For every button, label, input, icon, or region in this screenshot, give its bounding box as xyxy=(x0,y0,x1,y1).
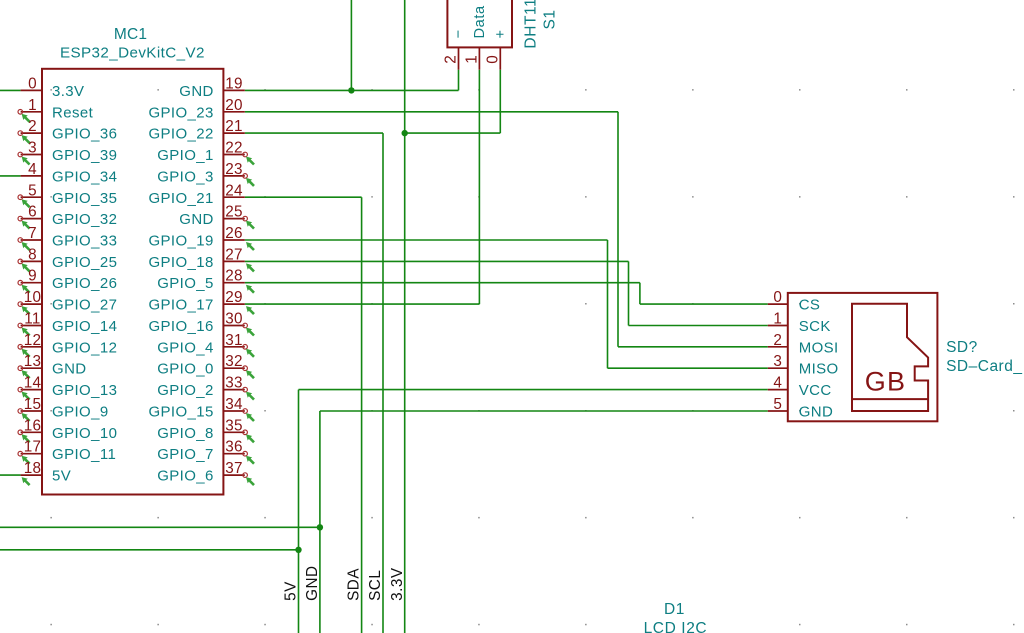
svg-text:GND: GND xyxy=(179,211,214,228)
svg-text:GND: GND xyxy=(304,565,321,601)
svg-text:3.3V: 3.3V xyxy=(389,567,406,601)
svg-text:17: 17 xyxy=(24,439,42,456)
svg-text:GPIO_7: GPIO_7 xyxy=(157,446,214,463)
svg-text:7: 7 xyxy=(28,225,37,242)
svg-text:2: 2 xyxy=(773,332,782,349)
svg-text:2: 2 xyxy=(443,55,460,64)
svg-text:GND: GND xyxy=(799,403,834,420)
svg-text:19: 19 xyxy=(225,75,243,92)
svg-text:Reset: Reset xyxy=(52,104,94,121)
svg-text:1: 1 xyxy=(28,97,37,114)
svg-text:22: 22 xyxy=(225,140,243,157)
svg-text:33: 33 xyxy=(225,375,243,392)
svg-text:GPIO_2: GPIO_2 xyxy=(157,382,214,399)
svg-text:GPIO_8: GPIO_8 xyxy=(157,425,214,442)
svg-text:29: 29 xyxy=(225,289,243,306)
svg-text:GPIO_18: GPIO_18 xyxy=(148,254,213,271)
svg-text:37: 37 xyxy=(225,460,243,477)
svg-text:GPIO_4: GPIO_4 xyxy=(157,339,214,356)
svg-text:3: 3 xyxy=(773,353,782,370)
svg-text:LCD I2C: LCD I2C xyxy=(644,620,708,633)
svg-text:31: 31 xyxy=(225,332,243,349)
svg-text:GPIO_13: GPIO_13 xyxy=(52,382,117,399)
svg-text:27: 27 xyxy=(225,246,243,263)
svg-text:D1: D1 xyxy=(664,601,685,618)
svg-text:SCK: SCK xyxy=(799,318,831,335)
svg-text:GPIO_16: GPIO_16 xyxy=(148,318,213,335)
svg-text:21: 21 xyxy=(225,118,243,135)
svg-text:8: 8 xyxy=(28,246,37,263)
svg-text:25: 25 xyxy=(225,204,243,221)
svg-text:GPIO_17: GPIO_17 xyxy=(148,297,213,314)
svg-text:Data: Data xyxy=(472,5,488,39)
svg-text:3: 3 xyxy=(28,140,37,157)
svg-text:GPIO_3: GPIO_3 xyxy=(157,168,214,185)
svg-text:24: 24 xyxy=(225,182,243,199)
svg-text:13: 13 xyxy=(24,353,42,370)
svg-text:GPIO_15: GPIO_15 xyxy=(148,403,213,420)
svg-text:12: 12 xyxy=(24,332,42,349)
svg-text:GPIO_27: GPIO_27 xyxy=(52,297,117,314)
svg-text:GPIO_14: GPIO_14 xyxy=(52,318,117,335)
svg-text:5V: 5V xyxy=(283,581,300,601)
svg-text:GPIO_39: GPIO_39 xyxy=(52,147,117,164)
svg-text:15: 15 xyxy=(24,396,42,413)
svg-text:GPIO_21: GPIO_21 xyxy=(148,190,213,207)
svg-text:28: 28 xyxy=(225,268,243,285)
svg-text:GPIO_36: GPIO_36 xyxy=(52,126,117,143)
svg-text:GPIO_34: GPIO_34 xyxy=(52,168,117,185)
svg-text:S1: S1 xyxy=(542,9,559,29)
svg-text:3.3V: 3.3V xyxy=(52,83,84,100)
svg-text:34: 34 xyxy=(225,396,243,413)
svg-text:GPIO_12: GPIO_12 xyxy=(52,339,117,356)
svg-text:10: 10 xyxy=(24,289,42,306)
svg-text:GPIO_22: GPIO_22 xyxy=(148,126,213,143)
svg-text:SCL: SCL xyxy=(367,570,384,601)
svg-text:GPIO_26: GPIO_26 xyxy=(52,275,117,292)
svg-text:GPIO_0: GPIO_0 xyxy=(157,361,214,378)
svg-text:GPIO_35: GPIO_35 xyxy=(52,190,117,207)
svg-text:GPIO_6: GPIO_6 xyxy=(157,468,214,485)
svg-text:11: 11 xyxy=(24,310,40,327)
svg-text:GPIO_10: GPIO_10 xyxy=(52,425,117,442)
svg-text:SD–Card_: SD–Card_ xyxy=(946,358,1022,375)
svg-text:MOSI: MOSI xyxy=(799,339,839,356)
svg-text:−: − xyxy=(451,29,467,38)
svg-text:18: 18 xyxy=(24,460,42,477)
svg-text:GPIO_9: GPIO_9 xyxy=(52,403,109,420)
svg-text:1: 1 xyxy=(463,55,480,64)
svg-text:ESP32_DevKitC_V2: ESP32_DevKitC_V2 xyxy=(60,45,205,62)
svg-text:GPIO_25: GPIO_25 xyxy=(52,254,117,271)
svg-text:GB: GB xyxy=(865,366,906,396)
svg-text:16: 16 xyxy=(24,417,42,434)
svg-text:6: 6 xyxy=(28,204,37,221)
svg-text:SDA: SDA xyxy=(346,568,363,601)
svg-text:MISO: MISO xyxy=(799,361,839,378)
svg-text:5: 5 xyxy=(28,182,37,199)
svg-text:9: 9 xyxy=(28,268,37,285)
svg-text:CS: CS xyxy=(799,297,821,314)
svg-text:GPIO_11: GPIO_11 xyxy=(52,446,116,463)
svg-text:+: + xyxy=(493,29,509,38)
svg-text:0: 0 xyxy=(484,55,501,64)
svg-text:5V: 5V xyxy=(52,468,71,485)
svg-text:GPIO_33: GPIO_33 xyxy=(52,232,117,249)
svg-text:0: 0 xyxy=(773,289,782,306)
svg-text:GPIO_32: GPIO_32 xyxy=(52,211,117,228)
svg-text:1: 1 xyxy=(773,310,782,327)
svg-text:SD?: SD? xyxy=(946,339,978,356)
svg-text:14: 14 xyxy=(24,375,42,392)
svg-text:MC1: MC1 xyxy=(114,26,147,43)
svg-text:36: 36 xyxy=(225,439,243,456)
svg-text:4: 4 xyxy=(773,375,782,392)
svg-text:GPIO_19: GPIO_19 xyxy=(148,232,213,249)
svg-text:GND: GND xyxy=(179,83,214,100)
svg-text:23: 23 xyxy=(225,161,243,178)
svg-text:2: 2 xyxy=(28,118,37,135)
svg-text:GPIO_23: GPIO_23 xyxy=(148,104,213,121)
svg-text:VCC: VCC xyxy=(799,382,832,399)
svg-text:26: 26 xyxy=(225,225,243,242)
svg-text:0: 0 xyxy=(28,75,37,92)
svg-text:32: 32 xyxy=(225,353,243,370)
svg-text:20: 20 xyxy=(225,97,243,114)
svg-text:4: 4 xyxy=(28,161,37,178)
svg-text:35: 35 xyxy=(225,417,243,434)
svg-text:30: 30 xyxy=(225,310,243,327)
svg-text:GPIO_1: GPIO_1 xyxy=(157,147,214,164)
svg-text:GPIO_5: GPIO_5 xyxy=(157,275,214,292)
svg-text:GND: GND xyxy=(52,361,87,378)
svg-text:5: 5 xyxy=(773,396,782,413)
svg-text:DHT11: DHT11 xyxy=(523,0,540,49)
